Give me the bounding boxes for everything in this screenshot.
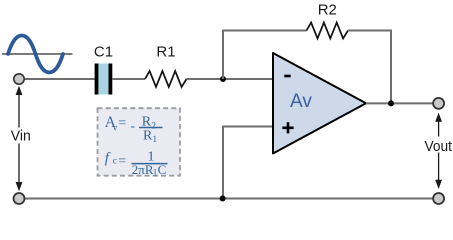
svg-text:Av: Av [290,91,312,112]
svg-text:C1: C1 [94,44,113,61]
wire: C1 to R1 [112,78,145,80]
formula fc = 1/(2piR1C) [105,150,168,178]
op-amp non-inverting pin marker [282,122,293,133]
wire: op-amp output [366,102,433,104]
Vout measurement arrow [423,113,453,189]
formula box [98,108,181,176]
wire: feedback riser from junction [222,30,224,80]
formula Av = -R2/R1 [105,114,163,145]
wire: R1 to op-amp inverting input [187,78,274,80]
terminal: Vout top [433,98,444,109]
wire: non-inverting input to ground rail [223,127,273,199]
svg-text:R1: R1 [156,44,175,61]
svg-text:Vout: Vout [425,138,453,155]
wire: R2 to feedback right corner [348,30,392,32]
junction node at inverting input [220,76,226,82]
svg-text:=: = [118,154,126,169]
junction node on ground rail [220,196,226,202]
resistor R1 [145,71,187,87]
op-amp U1 triangle [273,53,366,154]
svg-text:R2: R2 [318,2,337,19]
svg-text:=: = [118,116,126,131]
wire: ground rail [19,198,439,200]
Vin measurement arrow [7,86,34,191]
junction node at output [388,100,394,106]
svg-text:v: v [113,124,118,134]
svg-text:-: - [130,119,135,134]
svg-text:c: c [113,157,117,167]
wire: feedback drop to output [390,30,392,104]
svg-text:C: C [158,162,167,177]
capacitor C1 [95,64,113,95]
AC source sine wave axis [2,53,73,55]
AC source sine wave [8,36,63,73]
terminal: Vout bottom [433,193,444,204]
terminal: Vin top [14,74,24,84]
wire: feedback top left to R2 [222,30,307,32]
svg-text:1: 1 [152,135,157,145]
terminal: Vin bottom [14,193,25,204]
svg-text:2πR: 2πR [132,162,154,177]
resistor R2 [307,23,349,39]
svg-text:Vin: Vin [11,128,31,145]
wire: input terminal to capacitor C1 [19,78,95,80]
op-amp inverting pin marker [284,75,290,78]
